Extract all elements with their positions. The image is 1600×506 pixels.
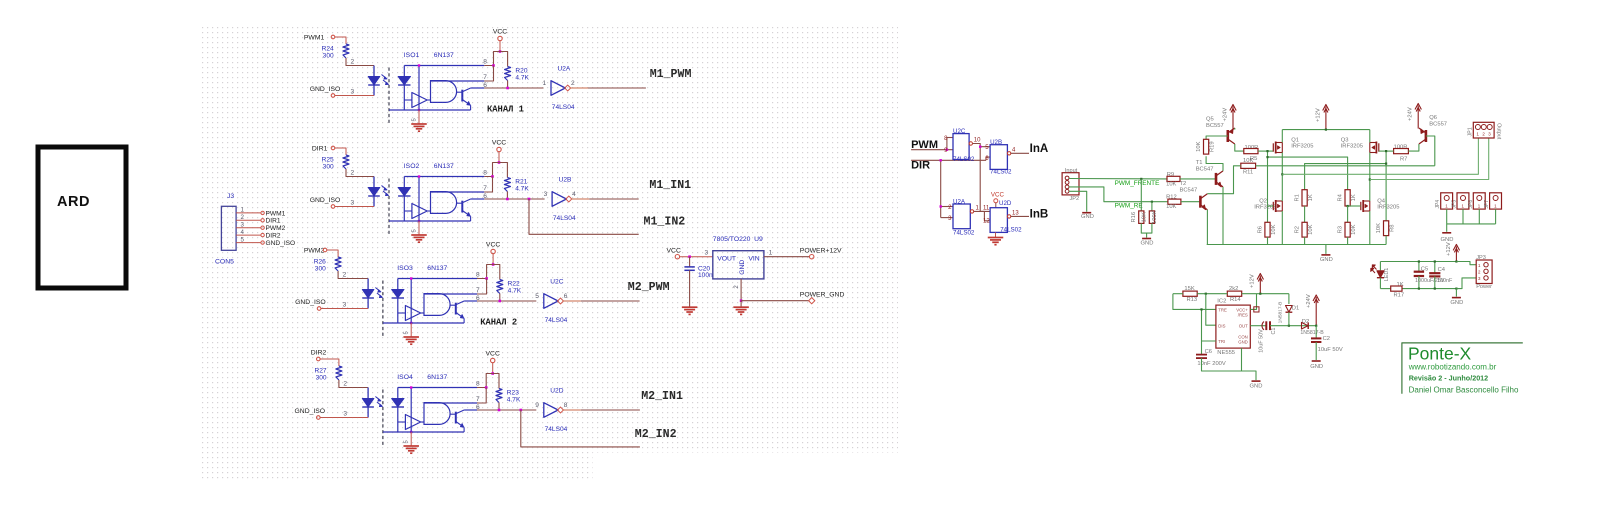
- svg-text:2: 2: [571, 80, 575, 87]
- svg-text:PWM2: PWM2: [266, 225, 286, 232]
- opto pin 7 line: [431, 80, 485, 82]
- svg-text:R11: R11: [1243, 170, 1253, 176]
- output wire M2_PWM: [563, 300, 581, 302]
- wire JP4 to gnd rail: [1446, 209, 1448, 224]
- svg-text:1K: 1K: [1351, 194, 1357, 201]
- svg-text:8: 8: [564, 402, 568, 409]
- svg-text:КАНАЛ 2: КАНАЛ 2: [480, 318, 517, 328]
- opto buffer gate: [405, 306, 420, 321]
- resistor R24 300: [343, 44, 349, 58]
- photon arrows: [375, 397, 380, 401]
- svg-text:C4: C4: [1438, 267, 1446, 273]
- svg-text:U2C: U2C: [550, 279, 563, 286]
- svg-text:VCC+: VCC+: [1236, 307, 1248, 312]
- photodiode: [397, 388, 399, 399]
- svg-text:1: 1: [769, 250, 773, 257]
- svg-text:BC557: BC557: [1206, 123, 1224, 129]
- opto AND gate: [421, 421, 424, 423]
- svg-text:GND: GND: [1081, 214, 1094, 220]
- resistor R6 10K: [1265, 222, 1270, 237]
- svg-text:Ponte-X: Ponte-X: [1408, 344, 1472, 364]
- svg-text:+12V: +12V: [1250, 274, 1256, 288]
- Q1 drain to +12V rail: [1281, 130, 1283, 143]
- optocoupler isolation dashed line: [388, 68, 390, 125]
- wire Q4 gate: [1348, 205, 1361, 207]
- svg-text:7: 7: [476, 396, 480, 403]
- svg-text:R24: R24: [322, 46, 334, 53]
- svg-text:4: 4: [241, 229, 245, 236]
- svg-text:100nF: 100nF: [1437, 278, 1453, 284]
- opto ground stem: [418, 221, 420, 235]
- svg-text:IRF3205: IRF3205: [1377, 205, 1399, 211]
- T1 emitter wire: [1222, 187, 1224, 245]
- svg-text:3: 3: [544, 191, 548, 198]
- svg-text:6N137: 6N137: [434, 163, 454, 170]
- svg-text:OUT: OUT: [1239, 323, 1248, 328]
- optocoupler isolation dashed line: [382, 281, 384, 338]
- resistor R19 10K at Q5 base: [1206, 136, 1228, 139]
- opto pin 6 line: [464, 300, 477, 302]
- svg-text:U2D: U2D: [999, 200, 1012, 207]
- svg-text:R13: R13: [1187, 297, 1198, 303]
- ARD board block: [38, 147, 126, 288]
- svg-text:BC557: BC557: [1429, 121, 1447, 127]
- wire gate node to R1 column: [1305, 164, 1387, 190]
- svg-text:R7: R7: [1400, 156, 1407, 162]
- Q6 base wire to R11 line: [1426, 136, 1435, 166]
- svg-text:R17: R17: [1394, 292, 1405, 298]
- J3 pin 4 wire to DIR2: [236, 234, 260, 236]
- svg-text:R23: R23: [507, 390, 519, 397]
- output net wire to inverter: [484, 198, 544, 200]
- opto bias rail: [410, 388, 412, 433]
- output net wire to inverter: [477, 300, 536, 302]
- svg-text:+24V: +24V: [1306, 294, 1312, 308]
- svg-text:4.7K: 4.7K: [515, 186, 529, 193]
- opto bottom line: [389, 109, 471, 111]
- svg-text:3: 3: [343, 411, 347, 418]
- wire JP2 to GND: [1069, 191, 1087, 212]
- wire gate node to R4 column: [1268, 157, 1348, 190]
- svg-text:10K: 10K: [1166, 182, 1176, 188]
- svg-text:Q6: Q6: [1429, 115, 1437, 121]
- opto AND gate: [427, 99, 430, 101]
- svg-text:2: 2: [343, 272, 347, 279]
- output net wire to inverter: [484, 87, 543, 89]
- output B wire to JP1: [1370, 138, 1489, 180]
- svg-text:M2_PWM: M2_PWM: [628, 281, 670, 294]
- svg-text:R19: R19: [1210, 141, 1216, 152]
- svg-text:IRF3205: IRF3205: [1291, 144, 1313, 150]
- svg-text:8: 8: [476, 381, 480, 388]
- wire JP6 to gnd rail: [1478, 209, 1480, 224]
- opto output transistor: [457, 91, 463, 93]
- svg-text:R20: R20: [515, 68, 527, 75]
- svg-text:ISO3: ISO3: [397, 265, 413, 272]
- svg-text:GND: GND: [1320, 257, 1333, 263]
- ground under jumpers: [1442, 232, 1451, 234]
- photon arrows: [382, 75, 387, 79]
- svg-text:10K: 10K: [1142, 212, 1148, 222]
- svg-text:VCC: VCC: [486, 350, 500, 357]
- wire Q2 gate: [1268, 205, 1274, 207]
- opto pin 7 line: [424, 402, 477, 404]
- svg-text:6N137: 6N137: [427, 265, 447, 272]
- svg-text:12: 12: [983, 219, 990, 225]
- opto LED: [373, 66, 375, 96]
- wire JP2 to PWM_RE: [1069, 187, 1168, 202]
- ground symbol: [411, 123, 427, 125]
- svg-text:2: 2: [241, 214, 245, 221]
- svg-text:300: 300: [323, 53, 334, 60]
- wire to POWER_GND: [741, 300, 808, 302]
- svg-text:GND: GND: [1238, 340, 1248, 345]
- svg-text:GND_ISO: GND_ISO: [310, 86, 341, 93]
- Q6 collector to R7: [1408, 144, 1419, 151]
- ground at JP3 rail: [1455, 289, 1457, 297]
- output wire M2_IN1: [563, 409, 581, 411]
- pullup resistor R21 4.7K: [499, 163, 507, 178]
- resistor R4 1K: [1345, 190, 1350, 206]
- wire Q3 gate node down: [1385, 151, 1387, 221]
- svg-text:POWER_GND: POWER_GND: [800, 292, 845, 299]
- svg-text:GND: GND: [1250, 384, 1263, 390]
- svg-text:5: 5: [535, 293, 539, 300]
- junction PWM_RE to R15: [1151, 201, 1153, 203]
- output wire M1_IN1: [571, 198, 589, 200]
- capacitor C6 10nF 200V: [1201, 341, 1203, 355]
- VCC junction: [492, 263, 495, 266]
- wire +12V rail to D1: [1288, 294, 1290, 304]
- svg-text:1N5817-B: 1N5817-B: [1277, 302, 1283, 324]
- output net wire to inverter: [477, 409, 536, 411]
- svg-text:8: 8: [483, 59, 487, 66]
- resistor R15 100K pulldown: [1151, 202, 1153, 211]
- pullup resistor R23 4.7K: [493, 374, 499, 389]
- svg-text:U2D: U2D: [550, 388, 563, 395]
- svg-text:U9: U9: [754, 236, 763, 243]
- resistor R2 10K: [1304, 206, 1306, 222]
- photon arrows: [375, 288, 380, 292]
- wire resistor to LED anode, pin 2: [338, 271, 368, 279]
- svg-text:R22: R22: [508, 281, 520, 288]
- wire pulldowns to ground: [1141, 223, 1152, 233]
- svg-text:DIR1: DIR1: [266, 218, 281, 225]
- svg-text:74LS02: 74LS02: [990, 168, 1012, 175]
- svg-text:IC2: IC2: [1217, 298, 1226, 304]
- opto ground stem: [418, 110, 420, 124]
- svg-text:7: 7: [483, 74, 487, 81]
- svg-text:PWM1: PWM1: [266, 210, 286, 217]
- opto bias rail: [418, 177, 420, 222]
- capacitor C2 10uF 50V: [1315, 326, 1317, 338]
- svg-text:R2: R2: [1295, 226, 1301, 233]
- svg-text:7: 7: [476, 287, 480, 294]
- capacitor C20 100n: [689, 257, 691, 267]
- capacitor C1 10uF 50V: [1265, 321, 1267, 330]
- wire input to resistor: [335, 37, 346, 44]
- svg-text:GND: GND: [1441, 237, 1454, 243]
- svg-text:R26: R26: [314, 259, 326, 266]
- svg-text:VCC: VCC: [667, 247, 681, 254]
- +12V supply arrow top: [1325, 107, 1327, 130]
- wire pin 7 to pin 8 pull-up vertical: [484, 66, 493, 82]
- wire PWM: [911, 149, 953, 151]
- ground under pulldowns: [1142, 238, 1151, 240]
- wire VCC to pin 8: [484, 52, 500, 66]
- svg-text:TRE: TRE: [1218, 307, 1227, 312]
- wire pin 7 to pin 8 pull-up vertical: [477, 279, 487, 295]
- wire U2C out to U2B in: [973, 144, 991, 147]
- pullup resistor R22 4.7K: [493, 265, 500, 280]
- opto buffer gate: [412, 204, 427, 219]
- resistor R26 300: [335, 257, 341, 271]
- svg-text:300: 300: [316, 375, 327, 382]
- VCC junction: [491, 372, 494, 375]
- timer IC2 NE555: [1216, 305, 1250, 348]
- Q3-Q4 column: [1369, 153, 1371, 202]
- svg-text:J3: J3: [227, 193, 234, 200]
- wire DIR: [911, 159, 986, 161]
- wire GND_ISO to LED cathode, pin 3: [321, 308, 368, 310]
- opto output transistor: [450, 304, 456, 306]
- opto bias rail: [410, 279, 412, 324]
- svg-text:74LS04: 74LS04: [552, 104, 575, 111]
- regulator GND pin 2: [740, 279, 742, 301]
- svg-text:GND_ISO: GND_ISO: [295, 299, 326, 306]
- svg-text:M1_PWM: M1_PWM: [650, 68, 692, 81]
- opto pin 7 line: [424, 293, 477, 295]
- svg-text:/RES: /RES: [1238, 313, 1248, 318]
- svg-text:13: 13: [1012, 211, 1019, 217]
- svg-text:U2A: U2A: [558, 66, 571, 73]
- svg-text:U2B: U2B: [559, 177, 572, 184]
- svg-text:3: 3: [351, 89, 355, 96]
- svg-text:TRI: TRI: [1218, 339, 1225, 344]
- svg-text:T1: T1: [1196, 160, 1203, 166]
- VCC junction: [498, 161, 501, 164]
- svg-text:ISO2: ISO2: [404, 163, 420, 170]
- opto ground stem: [410, 432, 412, 446]
- wire GND_ISO to LED cathode, pin 3: [320, 417, 368, 419]
- T2 emitter wire: [1206, 210, 1208, 245]
- resistor R27 300: [336, 366, 342, 380]
- svg-text:3: 3: [351, 200, 355, 207]
- svg-text:5: 5: [404, 331, 410, 334]
- svg-text:Q5: Q5: [1206, 117, 1214, 123]
- wire resistor to LED anode, pin 2: [339, 380, 368, 388]
- svg-text:10K: 10K: [1308, 224, 1314, 234]
- svg-text:D1: D1: [1292, 305, 1299, 311]
- photodiode: [403, 177, 405, 188]
- Q5 collector wire to R5: [1235, 144, 1244, 151]
- svg-text:LED1: LED1: [1384, 268, 1390, 282]
- +12V supply arrow at 555: [1259, 276, 1261, 294]
- NOR gate U2D 74LS02: [990, 208, 1007, 233]
- svg-text:IRF3205: IRF3205: [1341, 144, 1363, 150]
- svg-text:C1: C1: [1271, 328, 1277, 335]
- svg-text:7805/TO220: 7805/TO220: [713, 236, 751, 243]
- svg-text:PWM_FRENTE: PWM_FRENTE: [1115, 180, 1160, 187]
- opto box top line pin 8: [398, 278, 477, 280]
- ground under C20: [682, 306, 698, 308]
- opto output transistor: [457, 202, 463, 204]
- svg-text:10K: 10K: [1351, 224, 1357, 234]
- +24V supply arrow at C2: [1315, 297, 1317, 326]
- svg-text:GND: GND: [739, 260, 746, 275]
- wire 555 top rail: [1173, 293, 1183, 295]
- svg-text:КАНАЛ 1: КАНАЛ 1: [487, 105, 524, 115]
- port POWER+12V: [810, 255, 814, 259]
- svg-text:300: 300: [315, 266, 326, 273]
- opto ground stem: [410, 323, 412, 337]
- resistor R25 300: [343, 155, 349, 169]
- svg-text:100K: 100K: [1152, 210, 1158, 224]
- wire input to resistor: [320, 359, 339, 366]
- svg-text:Daniel Omar Basconcello Filho: Daniel Omar Basconcello Filho: [1409, 385, 1519, 394]
- optocoupler isolation dashed line: [388, 179, 390, 236]
- svg-text:+12V: +12V: [1446, 242, 1452, 256]
- LED LED1: [1379, 262, 1381, 271]
- opto buffer gate: [405, 415, 420, 430]
- svg-text:GND: GND: [1450, 300, 1463, 306]
- pullup resistor R20 4.7K: [500, 52, 508, 67]
- resistor R1 1K: [1302, 190, 1307, 206]
- ground symbol: [403, 445, 419, 447]
- svg-text:VOUT: VOUT: [717, 256, 736, 263]
- svg-text:DIR1: DIR1: [312, 146, 328, 153]
- svg-text:74LS02: 74LS02: [953, 230, 975, 237]
- svg-text:6: 6: [564, 293, 568, 300]
- svg-text:ISO4: ISO4: [397, 374, 413, 381]
- opto buffer gate: [412, 93, 427, 108]
- svg-text:PWM_RE: PWM_RE: [1115, 202, 1143, 209]
- opto pin 6 line: [471, 198, 485, 200]
- opto bottom line: [389, 220, 471, 222]
- opto pin 6 line: [471, 87, 485, 89]
- wire U2C out down to U2D pin 11: [980, 147, 990, 212]
- wire resistor to LED anode, pin 2: [346, 169, 374, 177]
- photodiode: [403, 66, 405, 77]
- svg-text:R4: R4: [1338, 193, 1344, 201]
- resistor R3 10K: [1347, 206, 1349, 222]
- svg-text:+12V: +12V: [1315, 108, 1321, 122]
- svg-text:10K: 10K: [1196, 141, 1202, 151]
- wire GND_ISO to LED cathode, pin 3: [335, 95, 374, 97]
- wire JP2 to PWM_FRENTE: [1069, 178, 1167, 180]
- wire C2 to ground: [1315, 342, 1317, 360]
- svg-text:GND_ISO: GND_ISO: [295, 408, 326, 415]
- svg-text:2: 2: [351, 170, 355, 177]
- branch junction for M2_IN2: [520, 409, 523, 412]
- wire R13 left to TRE/TRI: [1173, 294, 1216, 310]
- opto AND gate: [421, 312, 424, 314]
- wire VIN pin 1 to POWER+12V: [764, 256, 810, 258]
- svg-text:4.7K: 4.7K: [507, 397, 521, 404]
- svg-text:R16: R16: [1131, 212, 1137, 223]
- svg-text:InA: InA: [1030, 142, 1049, 155]
- J3 pin 3 wire to PWM2: [236, 227, 260, 229]
- wire R9 to T1 base: [1180, 178, 1216, 180]
- svg-text:ISO1: ISO1: [404, 52, 420, 59]
- T1 collector wire to R19: [1206, 156, 1223, 171]
- wire input to resistor: [335, 148, 346, 155]
- resistor R8 10K: [1385, 164, 1387, 221]
- 555 OUT wire to C1: [1250, 325, 1266, 327]
- opto bias rail: [418, 66, 420, 111]
- J3 pin 1 wire to PWM1: [236, 212, 260, 214]
- opto LED: [367, 388, 369, 418]
- svg-text:8: 8: [483, 170, 487, 177]
- svg-text:10: 10: [974, 138, 981, 144]
- wire R13-R14 node to DIS: [1206, 294, 1216, 326]
- ground symbol: [411, 234, 427, 236]
- svg-text:74LS04: 74LS04: [545, 426, 568, 433]
- wire VCC to pin 8: [477, 374, 493, 388]
- svg-text:M2_IN2: M2_IN2: [635, 428, 677, 441]
- resistor R16 10K pulldown: [1140, 179, 1142, 211]
- svg-text:1N5817-B: 1N5817-B: [1300, 330, 1324, 336]
- 555 VCC pin wire: [1250, 294, 1256, 310]
- svg-text:Power: Power: [1476, 284, 1492, 290]
- +12V rail top: [1282, 129, 1370, 131]
- wire M2_IN2: [521, 410, 640, 447]
- svg-text:3: 3: [705, 250, 709, 257]
- svg-text:www.robotizando.com.br: www.robotizando.com.br: [1408, 362, 1497, 371]
- svg-text:C6: C6: [1205, 349, 1212, 355]
- svg-text:Output: Output: [1496, 123, 1502, 140]
- wire R11 line: [1256, 165, 1435, 167]
- opto AND gate: [427, 210, 430, 212]
- ground under 555: [1252, 380, 1261, 382]
- svg-text:10uF 50V: 10uF 50V: [1259, 329, 1265, 353]
- svg-text:DIR2: DIR2: [311, 350, 327, 357]
- optocoupler isolation dashed line: [382, 390, 384, 447]
- svg-text:5: 5: [241, 236, 245, 243]
- wire U2B out to InA: [1011, 152, 1029, 154]
- svg-text:DIR2: DIR2: [266, 233, 281, 240]
- ground under U2D: [995, 232, 997, 237]
- J3 pin 2 wire to DIR1: [236, 219, 260, 221]
- svg-text:+24V: +24V: [1223, 108, 1229, 122]
- title block border: [1402, 343, 1523, 394]
- +24V supply arrow right: [1417, 106, 1419, 129]
- power rail bottom: [1380, 288, 1390, 290]
- svg-text:1: 1: [241, 207, 245, 214]
- svg-text:CON: CON: [1238, 334, 1248, 339]
- wire C6 to ground: [1202, 358, 1257, 380]
- ground under C2: [1312, 360, 1321, 362]
- wire TRI node: [1202, 309, 1216, 341]
- svg-text:M1_IN2: M1_IN2: [644, 216, 686, 229]
- svg-text:PWM1: PWM1: [304, 35, 325, 42]
- svg-text:R6: R6: [1258, 226, 1264, 233]
- svg-text:VCC: VCC: [492, 139, 506, 146]
- capacitor C4 100nF: [1434, 262, 1436, 273]
- svg-text:4.7K: 4.7K: [515, 75, 529, 82]
- opto LED: [367, 279, 369, 309]
- wire JP7 to gnd rail: [1495, 209, 1497, 224]
- svg-text:10K: 10K: [1271, 224, 1277, 234]
- output wire M1_PWM: [570, 87, 588, 89]
- svg-text:R14: R14: [1230, 297, 1241, 303]
- svg-text:M2_IN1: M2_IN1: [641, 390, 683, 403]
- wire C1 to diode node: [1270, 325, 1316, 327]
- svg-text:1K: 1K: [1308, 194, 1314, 201]
- wire Q1 gate node down: [1267, 151, 1269, 222]
- svg-text:2: 2: [343, 381, 347, 388]
- svg-text:InB: InB: [1030, 208, 1049, 221]
